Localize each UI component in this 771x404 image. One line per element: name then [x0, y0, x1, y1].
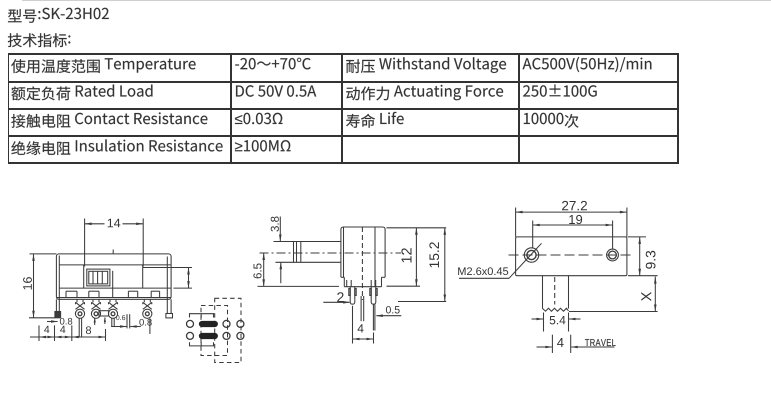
side view: lever ribs — [293, 242, 295, 263]
front view: base mid line — [56, 297, 171, 299]
front view: terminal pin 4 with eyelet — [143, 299, 145, 302]
dimension X — [569, 311, 658, 313]
dimension 16 (body height) — [30, 253, 57, 255]
table top border — [8, 53, 679, 55]
table row line 3 — [8, 135, 679, 137]
front view: center mark ticks — [112, 250, 114, 254]
side view: seat plane line — [258, 285, 340, 287]
top view: actuator break zigzag — [543, 308, 569, 311]
heading model number — [8, 8, 109, 23]
footprint: dashed knob position 2 — [215, 298, 241, 362]
front view: knob frame left vertical — [83, 265, 85, 288]
front view: pin1 tail — [78, 318, 80, 336]
table row line 1 — [8, 81, 679, 83]
dimension 5.4 stem width — [543, 313, 545, 332]
table column line 2 — [341, 53, 343, 164]
footprint: pad holes — [187, 320, 194, 327]
side view: vertical dashed centerline — [361, 227, 363, 300]
footprint: solid outline top bracket — [190, 314, 214, 318]
dimension 15.2 overall height — [420, 227, 446, 229]
footprint: solid outline bottom bracket — [190, 342, 214, 346]
dimension 0.8 right (ext lines) — [126, 314, 128, 328]
front view: switch body outline — [56, 254, 171, 299]
front view: terminal pin 1 with eyelet — [76, 299, 78, 302]
top view: actuator dashed centerline — [554, 277, 556, 305]
dimension chain 4 4 8 (pin pitch) — [38, 325, 40, 341]
table right border — [677, 53, 679, 164]
table row line 2 — [8, 108, 679, 110]
front view: pin4 tail — [149, 319, 151, 335]
front view: horizontal line top of knob level — [59, 264, 171, 266]
footprint: slot pads (filled) — [199, 321, 217, 326]
dimension 4 pin spacing (side view) — [352, 306, 354, 344]
side view: right pin — [371, 287, 376, 305]
dimension 0.5 thin pin — [376, 315, 401, 317]
front view: right mounting bracket — [166, 257, 168, 314]
table cell texts — [11, 58, 195, 73]
page top border line — [22, 0, 771, 1]
table column line 1 — [230, 53, 232, 164]
front view: shorting bar between pin2 and pin3 — [99, 311, 109, 316]
table left border — [8, 53, 10, 164]
dimension 0.8 left leg thickness — [47, 321, 58, 323]
dimension 27.2 overall width — [515, 208, 517, 237]
dimension 2 pin width — [323, 301, 349, 303]
top view: mounting hole right — [607, 249, 619, 261]
top view: actuator stem — [542, 276, 544, 309]
tiny 0.6 eyelet hole label — [116, 315, 125, 320]
front view: terminal pin 2 with eyelet — [92, 299, 94, 302]
dimension right side of front view (unlabeled) — [143, 267, 192, 269]
side view: body outline — [341, 227, 385, 277]
dimension 12 body height — [387, 227, 421, 229]
dimension 9.3 body depth — [628, 236, 646, 238]
side view: horizontal centerline — [260, 252, 402, 254]
dimension 19 hole spacing — [532, 221, 534, 248]
dimension 4 travel — [551, 335, 553, 353]
front view: base bumps / terminal roots — [65, 291, 67, 297]
table bottom border — [8, 162, 679, 164]
front view: slider knob inner serration — [89, 271, 108, 284]
side view: body step to base — [341, 276, 344, 278]
front view: pin3 tail — [111, 318, 113, 326]
dimension 6.5 centerline to seat — [263, 253, 265, 286]
top view: horizontal centerline — [509, 254, 634, 256]
top view: body outline — [516, 237, 627, 276]
top view: mounting hole left M2.6 — [524, 248, 538, 262]
side view: actuator lever — [274, 241, 341, 243]
front view: slider knob outer — [87, 269, 110, 286]
side view: left pin — [350, 287, 355, 305]
leader M2.6x0.45 — [459, 277, 509, 279]
heading tech spec — [8, 33, 71, 47]
side view: long thin tails — [360, 296, 362, 321]
front view: terminal pin 3 with eyelet — [109, 299, 111, 302]
side view: pin root notches — [346, 280, 348, 287]
table column line 3 — [518, 53, 520, 164]
dimension 3.8 lever thickness — [279, 217, 281, 242]
footprint: dashed knob position 1 — [201, 306, 228, 356]
front view: left mounting leg — [55, 299, 57, 318]
front view: knob frame right vertical — [142, 265, 144, 288]
micro arrows at shorting bar — [94, 318, 96, 325]
dimension 14 (knob frame width) — [84, 219, 86, 267]
front view: horizontal line below knob — [59, 287, 171, 289]
front view: inner left wall line — [58, 256, 60, 300]
side view: inner wall lines — [343, 227, 345, 277]
